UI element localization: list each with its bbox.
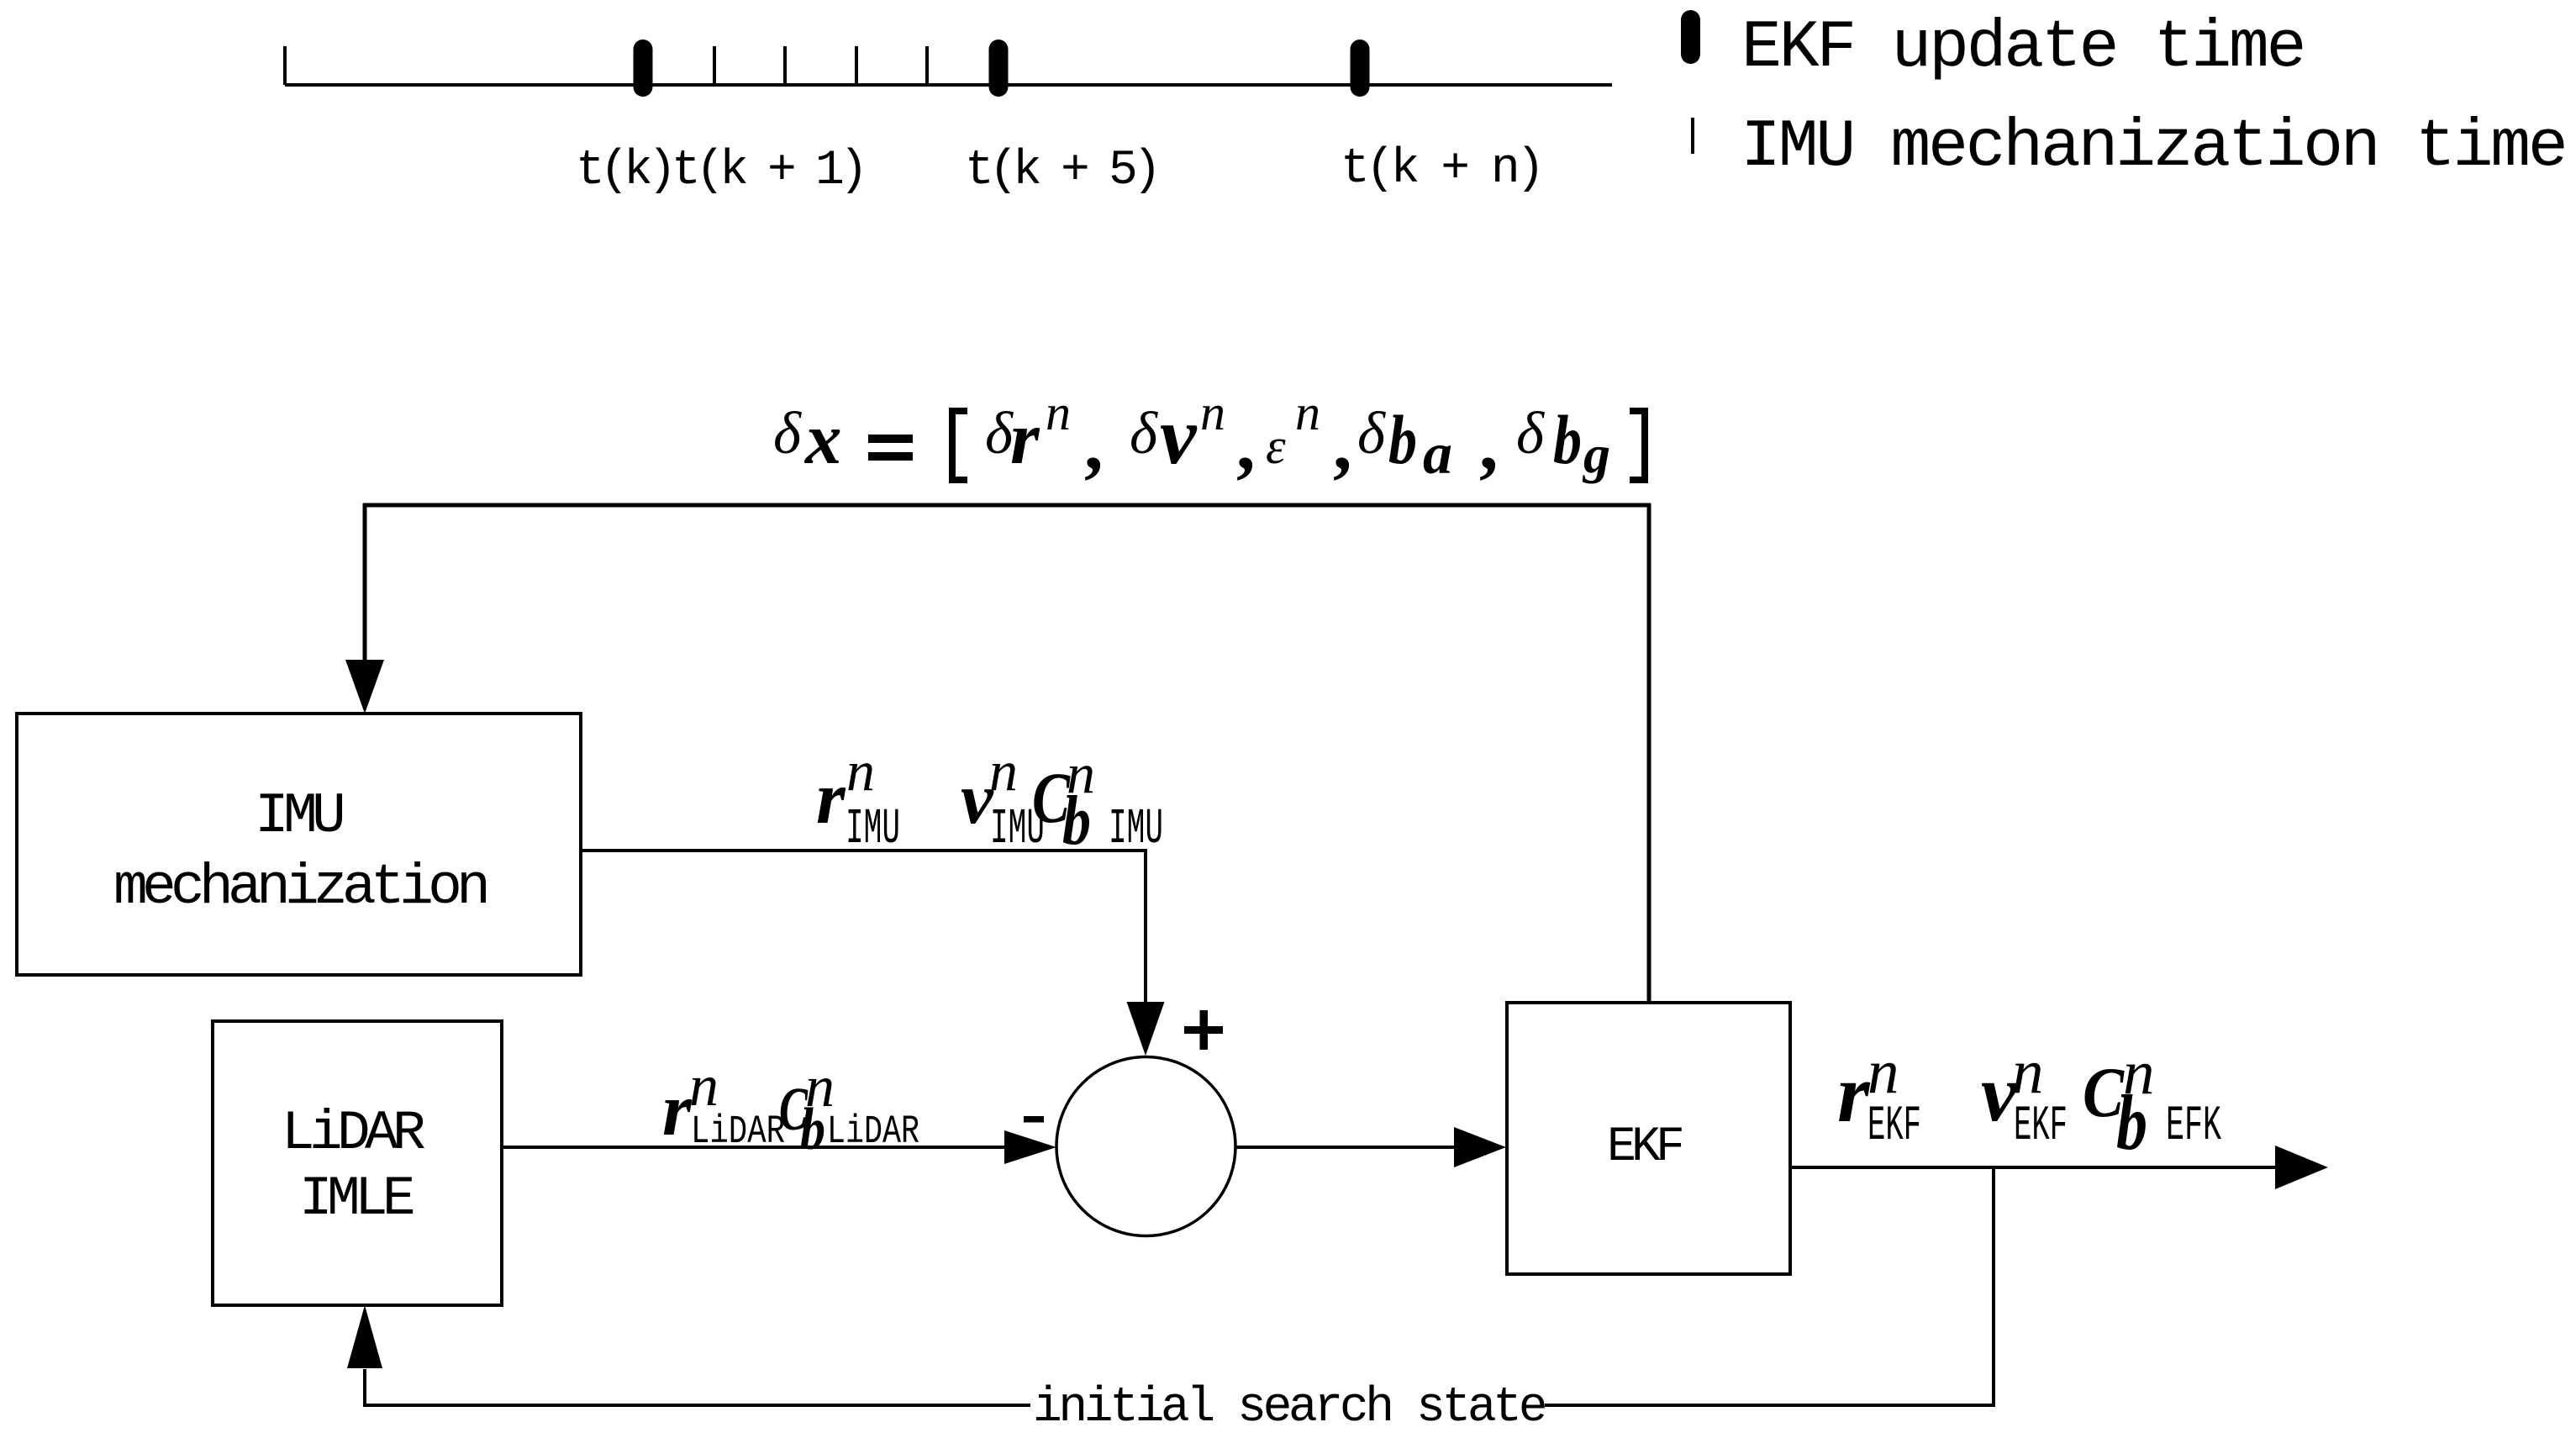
svg-text:initial search state: initial search state [1033,1381,1545,1434]
svg-text:δ: δ [1516,401,1545,466]
svg-text:r: r [1837,1048,1871,1140]
svg-text:IMU mechanization time: IMU mechanization time [1741,109,2565,186]
svg-text:,: , [1236,403,1256,486]
svg-text:t(k + 5): t(k + 5) [965,144,1156,198]
svg-text:EKF: EKF [1867,1099,1921,1154]
svg-text:IMU: IMU [1109,801,1163,857]
svg-text:EKF: EKF [2014,1099,2068,1154]
svg-text:b: b [1388,401,1417,478]
svg-text:mechanization: mechanization [113,856,486,920]
svg-text:EKF update time: EKF update time [1741,10,2304,87]
svg-text:EKF: EKF [1607,1120,1682,1175]
svg-text:n: n [989,739,1018,803]
svg-text:t(k + n): t(k + n) [1341,142,1541,197]
svg-text:b: b [1062,782,1091,860]
svg-text:n: n [846,739,875,803]
svg-text:t(k)t(k + 1): t(k)t(k + 1) [576,144,863,198]
svg-text:r: r [662,1069,693,1151]
svg-text:n: n [1867,1037,1899,1107]
svg-text:b: b [2116,1080,2147,1167]
svg-text:n: n [689,1054,719,1119]
svg-text:IMU: IMU [255,784,343,849]
svg-text:x: x [803,398,842,479]
svg-text:,: , [1084,403,1104,486]
svg-text:g: g [1582,424,1610,484]
svg-text:b: b [800,1097,825,1162]
svg-text:n: n [1295,385,1320,440]
svg-text:,: , [1479,403,1499,486]
svg-text:δ: δ [985,401,1014,466]
svg-text:IMU: IMU [845,801,900,857]
svg-text:δ: δ [1130,401,1158,466]
svg-text:r: r [1010,398,1040,480]
svg-text:n: n [2012,1037,2044,1107]
svg-text:LiDAR: LiDAR [282,1102,424,1165]
svg-text:δ: δ [773,401,802,466]
svg-text:n: n [1046,385,1071,440]
svg-text:n: n [1200,385,1225,440]
svg-text:b: b [1553,401,1582,478]
svg-text:,: , [1333,403,1352,486]
svg-text:LiDAR: LiDAR [691,1110,785,1155]
svg-text:EFK: EFK [2166,1099,2221,1154]
svg-text:IMLE: IMLE [299,1167,414,1230]
svg-text:v: v [1160,391,1198,482]
svg-text:r: r [816,757,846,840]
svg-text:LiDAR: LiDAR [827,1110,919,1155]
svg-text:ε: ε [1266,419,1286,474]
svg-text:δ: δ [1357,401,1386,466]
svg-text:a: a [1423,422,1452,487]
